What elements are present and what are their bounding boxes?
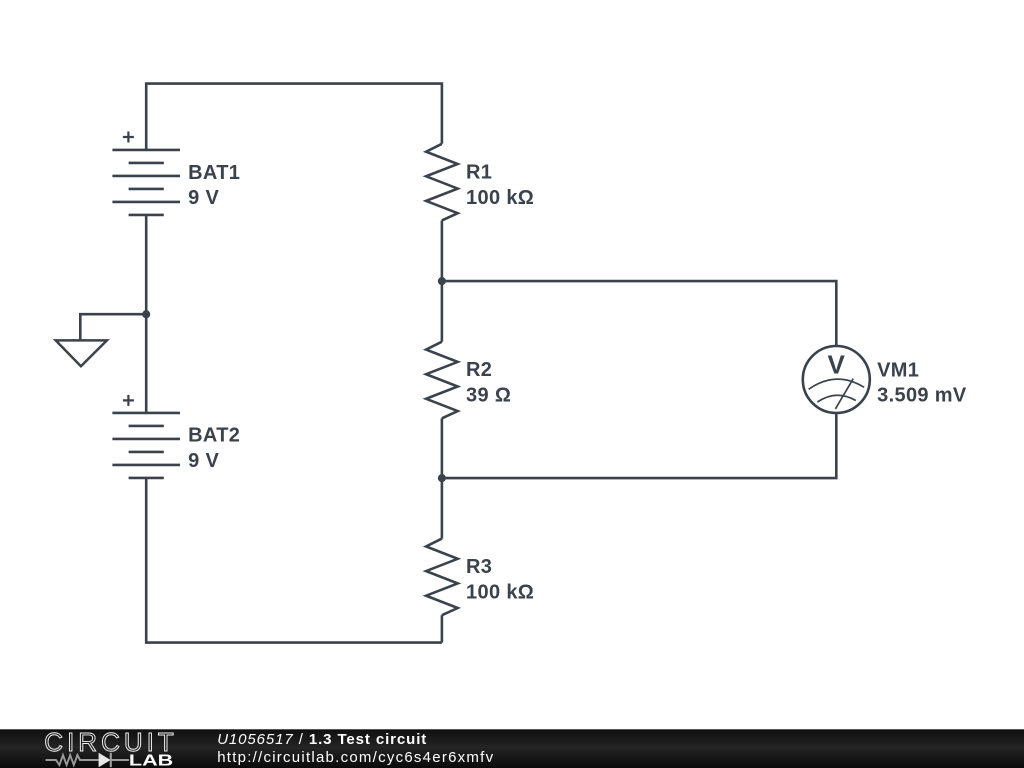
wire node A to R2 — [441, 281, 444, 342]
wire R3 to bottom rail — [441, 615, 444, 642]
wire ground node to BAT2 — [145, 314, 148, 413]
svg-text:9 V: 9 V — [188, 450, 219, 472]
node B — [438, 474, 446, 482]
svg-text:LAB: LAB — [129, 752, 173, 768]
ground — [56, 314, 147, 366]
wire R1 to node A — [441, 220, 444, 281]
footer bar — [0, 729, 1024, 768]
svg-text:100 kΩ: 100 kΩ — [466, 581, 534, 603]
resistor R1 — [426, 144, 458, 221]
resistor R3 — [426, 539, 458, 616]
node A — [438, 277, 446, 285]
node ground junction — [142, 310, 150, 318]
wire voltmeter to node B — [442, 413, 836, 478]
svg-text:BAT1: BAT1 — [188, 162, 240, 184]
wire BAT1 to ground node — [145, 215, 148, 314]
wire top rail — [146, 84, 442, 150]
svg-text:9 V: 9 V — [188, 187, 219, 209]
svg-text:39 Ω: 39 Ω — [466, 384, 511, 406]
battery BAT2 — [112, 395, 180, 478]
wire node B to R3 — [441, 478, 444, 538]
svg-text:3.509 mV: 3.509 mV — [877, 385, 967, 407]
voltmeter VM1 — [803, 346, 870, 413]
svg-text:U1056517 / 1.3 Test circuit: U1056517 / 1.3 Test circuit — [217, 731, 427, 748]
battery BAT1 — [112, 132, 180, 215]
svg-text:V: V — [827, 350, 845, 380]
svg-text:http://circuitlab.com/cyc6s4er: http://circuitlab.com/cyc6s4er6xmfv — [217, 749, 494, 766]
logo resistor-diode squiggle — [46, 753, 129, 767]
wire node A to voltmeter — [442, 281, 836, 346]
resistor R2 — [426, 342, 458, 419]
svg-text:VM1: VM1 — [877, 359, 919, 381]
svg-text:R2: R2 — [466, 359, 492, 381]
svg-text:100 kΩ: 100 kΩ — [466, 187, 534, 209]
svg-text:R1: R1 — [466, 161, 492, 183]
wire left bottom rail — [146, 478, 442, 643]
svg-text:R3: R3 — [466, 556, 492, 578]
svg-text:BAT2: BAT2 — [188, 425, 240, 447]
wire R2 to node B — [441, 418, 444, 478]
